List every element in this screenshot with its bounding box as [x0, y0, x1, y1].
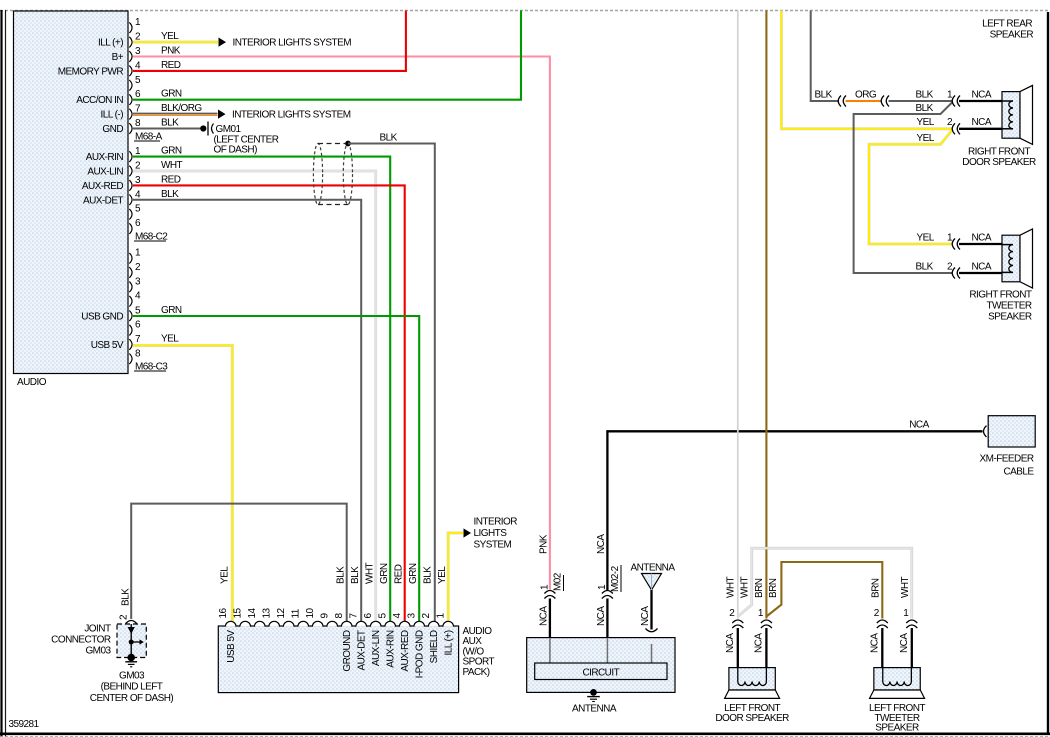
wire NCA door speaker pin 2 — [959, 128, 1002, 130]
GM03 internal wire with arrow — [128, 624, 144, 658]
svg-text:USB 5V: USB 5V — [226, 630, 237, 663]
label WHT (AUX-LIN) — [161, 160, 183, 171]
svg-text:CONNECTOR: CONNECTOR — [51, 635, 111, 646]
svg-text:BRN: BRN — [768, 578, 779, 598]
svg-text:WHT: WHT — [740, 576, 751, 598]
label NCA (tweeter pin2) — [972, 262, 992, 273]
svg-text:AUX-DET: AUX-DET — [83, 195, 123, 206]
wire WHT AUX-LIN — [133, 171, 376, 621]
svg-text:AUX-LIN: AUX-LIN — [371, 630, 382, 666]
svg-text:BLK: BLK — [815, 89, 833, 100]
label BLK (AUX-DET) — [161, 189, 179, 200]
inline connector M02-2 — [597, 565, 621, 599]
audio pin label ILL (-) — [101, 110, 124, 121]
label RED — [161, 60, 181, 71]
wire BLK segment to pin 1 — [889, 100, 953, 102]
svg-text:NCA: NCA — [725, 633, 736, 653]
svg-text:ILL (+): ILL (+) — [444, 630, 455, 655]
svg-text:ORG: ORG — [855, 89, 877, 100]
svg-text:I-POD GND: I-POD GND — [415, 630, 426, 678]
svg-text:YEL: YEL — [917, 233, 935, 244]
svg-text:(BEHIND LEFT: (BEHIND LEFT — [101, 682, 163, 693]
ground point GM01 symbol — [200, 122, 213, 136]
page top border (grey dashed) — [0, 10, 1050, 12]
svg-text:NCA: NCA — [972, 262, 992, 273]
label NCA (tweeter pin1) — [972, 233, 992, 244]
svg-text:GRN: GRN — [408, 563, 419, 584]
svg-text:LIGHTS: LIGHTS — [474, 528, 508, 539]
circuit inner box — [535, 663, 667, 680]
wire BLK to right front door speaker — [811, 11, 839, 102]
svg-text:RED: RED — [161, 60, 181, 71]
audio pin label AUX-LIN — [87, 167, 123, 178]
label YEL — [161, 31, 179, 42]
text RIGHT FRONT TWEETER SPEAKER — [969, 290, 1032, 323]
antenna circuit outer box — [527, 638, 675, 693]
svg-text:NCA: NCA — [972, 233, 992, 244]
label BLK (tweeter) — [916, 262, 934, 273]
inline connector (BLK-ORG) — [838, 96, 846, 107]
svg-text:M02: M02 — [553, 572, 564, 591]
svg-text:NCA: NCA — [596, 606, 607, 626]
audio pin label ACC/ON IN — [76, 95, 123, 106]
svg-text:YEL: YEL — [161, 31, 179, 42]
svg-text:ILL (-): ILL (-) — [101, 110, 124, 121]
svg-text:INTERIOR LIGHTS SYSTEM: INTERIOR LIGHTS SYSTEM — [232, 110, 351, 121]
wire RED AUX-RED — [133, 185, 405, 621]
audio connector M68-A pins 1-8 — [129, 17, 141, 134]
svg-text:INTERIOR: INTERIOR — [474, 517, 518, 528]
svg-text:INTERIOR LIGHTS SYSTEM: INTERIOR LIGHTS SYSTEM — [233, 38, 352, 49]
wire GRN USB GND — [133, 316, 419, 621]
svg-text:NCA: NCA — [899, 633, 910, 653]
label NCA (tweeter lead 1) — [899, 633, 910, 653]
text INTERIOR LIGHTS SYSTEM (second) — [232, 110, 351, 121]
svg-text:AUX-RED: AUX-RED — [82, 181, 123, 192]
svg-text:USB GND: USB GND — [81, 311, 123, 322]
svg-text:AUX-RED: AUX-RED — [400, 630, 411, 671]
svg-text:CIRCUIT: CIRCUIT — [582, 668, 619, 679]
tweeter pin 1 connector — [947, 233, 960, 250]
svg-text:GRN: GRN — [379, 563, 390, 584]
svg-text:DOOR SPEAKER: DOOR SPEAKER — [962, 157, 1036, 168]
label ORG — [855, 89, 877, 100]
tweeter pin 2 connector — [947, 262, 960, 279]
svg-text:YEL: YEL — [161, 334, 179, 345]
svg-text:BLK: BLK — [121, 588, 132, 606]
wire NCA speaker lead at x=766.4 — [765, 628, 767, 669]
XM-FEEDER CABLE box — [988, 416, 1035, 447]
svg-text:BLK: BLK — [916, 89, 934, 100]
page bottom border — [0, 734, 1050, 737]
label NCA below M02 — [538, 606, 549, 626]
audio pin label AUX-RIN — [86, 152, 124, 163]
wire NCA speaker lead at x=882.3 — [881, 628, 883, 669]
label NCA (door lead 1) — [753, 633, 764, 653]
audio aux connector box — [218, 626, 458, 693]
wire RED MEMORY PWR (to top) — [133, 11, 406, 71]
svg-text:TWEETER: TWEETER — [986, 301, 1031, 312]
label BLK/ORG — [161, 103, 202, 114]
shield drain junction dot — [345, 141, 351, 147]
label NCA (door lead 2) — [725, 633, 736, 653]
svg-text:ANTENNA: ANTENNA — [572, 703, 617, 714]
svg-text:359281: 359281 — [9, 719, 40, 730]
svg-text:GRN: GRN — [161, 146, 182, 157]
svg-text:WHT: WHT — [365, 562, 376, 584]
connector name M68-A — [134, 132, 163, 143]
svg-text:SYSTEM: SYSTEM — [474, 540, 512, 551]
inline connector (ORG-BLK) — [881, 96, 889, 107]
wire YEL USB 5V — [133, 346, 232, 622]
wire NCA antenna lead — [650, 590, 652, 630]
label WHT (tweeter pin1) — [900, 576, 911, 598]
svg-text:GM01: GM01 — [216, 124, 242, 135]
wire WHT branch (door to tweeter pin1) — [738, 548, 912, 618]
text AUDIO AUX (W/O SPORT PACK) — [463, 626, 495, 678]
svg-text:AUX-RIN: AUX-RIN — [386, 630, 397, 668]
label WHT (door pin2 b) — [740, 576, 751, 598]
svg-text:YEL: YEL — [437, 566, 448, 584]
wire NCA door speaker pin 1 — [959, 100, 1002, 102]
svg-text:NCA: NCA — [640, 606, 651, 626]
arrow to interior lights system (aux) — [464, 528, 472, 537]
wire GRN ACC/ON IN (to top) — [133, 11, 521, 100]
audio pin label AUX-RED — [82, 181, 123, 192]
label BLK (GM03 wire, rotated) — [121, 588, 132, 606]
label WHT (door pin2 a) — [725, 576, 736, 598]
svg-text:GM03: GM03 — [119, 671, 145, 682]
inline connector M02 (PNK) — [539, 572, 563, 598]
text INTERIOR LIGHTS SYSTEM (three lines) — [474, 517, 518, 551]
wire YEL to right front door speaker — [781, 11, 952, 129]
label YEL (door spk) — [917, 117, 935, 128]
label BLK (second segment) — [916, 89, 934, 100]
svg-text:WHT: WHT — [900, 576, 911, 598]
svg-text:NCA: NCA — [972, 89, 992, 100]
wire BLK GND to GM01 — [133, 128, 201, 130]
svg-text:SPEAKER: SPEAKER — [988, 312, 1032, 323]
audio pin label USB 5V — [91, 340, 124, 351]
svg-text:RED: RED — [161, 174, 181, 185]
text GM03 (BEHIND LEFT CENTER OF DASH) — [90, 671, 174, 704]
svg-text:RED: RED — [394, 564, 405, 584]
svg-text:NCA: NCA — [869, 633, 880, 653]
audio pin label GND — [102, 124, 123, 135]
page left border — [2, 10, 6, 737]
door speaker pin 2 connector — [947, 117, 960, 134]
svg-text:NCA: NCA — [753, 633, 764, 653]
svg-text:GND: GND — [102, 124, 123, 135]
svg-text:14: 14 — [247, 607, 258, 618]
svg-text:OF DASH): OF DASH) — [214, 145, 258, 156]
arrow to interior lights system (ILL-) — [218, 110, 226, 119]
XM feeder connector arc — [984, 426, 987, 437]
svg-text:11: 11 — [290, 608, 301, 618]
svg-text:SHIELD: SHIELD — [429, 630, 440, 663]
door speaker pin 1 connector — [947, 89, 960, 106]
svg-text:BLK: BLK — [916, 103, 934, 114]
svg-text:LEFT REAR: LEFT REAR — [982, 19, 1032, 30]
text LEFT FRONT DOOR SPEAKER — [715, 703, 789, 724]
text RIGHT FRONT DOOR SPEAKER — [962, 146, 1036, 168]
wire BLK branch to tweeter — [854, 103, 953, 274]
wire NCA speaker lead at x=911.8 — [911, 628, 913, 669]
svg-text:MEMORY PWR: MEMORY PWR — [58, 66, 124, 77]
wire WHT (left rear, long vertical) — [737, 11, 739, 619]
svg-text:M02-2: M02-2 — [610, 565, 621, 592]
wire NCA from M02-2 to circuit — [606, 599, 608, 639]
arrow to interior lights system (ILL+) — [219, 38, 227, 47]
page right border — [1047, 12, 1049, 735]
wire BLK/ORG ILL(-) — [133, 114, 218, 116]
speaker pin 1 connector at x=766.4 — [758, 608, 772, 628]
svg-text:NCA: NCA — [538, 606, 549, 626]
svg-text:BRN: BRN — [754, 578, 765, 598]
svg-text:AUX-DET: AUX-DET — [357, 630, 368, 670]
svg-text:10: 10 — [305, 607, 316, 618]
svg-text:GM03: GM03 — [85, 646, 111, 657]
wire YEL ILL(+) from audio aux pin 1 — [448, 533, 463, 621]
text JOINT CONNECTOR GM03 — [51, 624, 111, 657]
svg-text:B+: B+ — [112, 52, 124, 63]
svg-text:NCA: NCA — [596, 534, 607, 554]
label RED (AUX-RED) — [161, 174, 181, 185]
speaker pin 2 connector at x=737.8 — [729, 608, 743, 628]
label NCA below M02-2 — [596, 606, 607, 626]
label BRN (tweeter pin2) — [870, 578, 881, 598]
wire BRN (left rear, long vertical) — [765, 11, 767, 619]
label GRN (USB GND) — [161, 305, 182, 316]
audio pin label ILL (+) — [98, 38, 123, 49]
svg-text:WHT: WHT — [161, 160, 183, 171]
audio pin label MEMORY PWR — [58, 66, 124, 77]
label GRN (AUX-RIN) — [161, 146, 182, 157]
svg-text:BLK: BLK — [350, 566, 361, 584]
text GM01 (LEFT CENTER OF DASH) — [214, 124, 279, 156]
pin number 2 (GM03) — [119, 614, 130, 620]
svg-text:BLK: BLK — [916, 262, 934, 273]
audio connector M68-C3 pins 1-8 — [129, 248, 141, 364]
label BRN (door pin1 a) — [754, 578, 765, 598]
svg-text:CABLE: CABLE — [1003, 467, 1034, 478]
wire NCA speaker lead at x=737.8 — [737, 628, 739, 669]
text LEFT REAR SPEAKER — [982, 19, 1033, 41]
label GRN — [161, 89, 182, 100]
wire YEL ILL(+) to interior lights — [133, 41, 218, 44]
label PNK — [161, 46, 181, 57]
shield (dashed) around AUX wires — [313, 144, 352, 205]
svg-text:XM-FEEDER: XM-FEEDER — [980, 454, 1034, 465]
antenna mast symbol — [631, 563, 676, 591]
svg-text:USB 5V: USB 5V — [91, 340, 124, 351]
wire BLK shield drain — [348, 144, 435, 622]
svg-text:GROUND: GROUND — [342, 630, 353, 671]
svg-text:BLK: BLK — [161, 189, 179, 200]
text ANTENNA (below circuit) — [572, 703, 617, 714]
svg-text:15: 15 — [232, 607, 243, 618]
audio pin label AUX-DET — [83, 195, 123, 206]
svg-text:NCA: NCA — [909, 420, 929, 431]
label PNK (rotated) — [538, 534, 549, 554]
wire GRN AUX-RIN — [133, 157, 390, 621]
svg-text:BLK/ORG: BLK/ORG — [161, 103, 202, 114]
svg-text:RIGHT FRONT: RIGHT FRONT — [968, 146, 1031, 157]
label NCA (door pin2) — [972, 117, 992, 128]
svg-text:ILL (+): ILL (+) — [98, 38, 123, 49]
audio unit box (AUDIO) — [14, 11, 129, 374]
svg-text:PNK: PNK — [161, 46, 181, 57]
audio pin label B+ — [112, 52, 124, 63]
svg-text:AUX-LIN: AUX-LIN — [87, 167, 123, 178]
svg-text:AUX-RIN: AUX-RIN — [86, 152, 124, 163]
svg-text:13: 13 — [261, 607, 272, 618]
svg-text:YEL: YEL — [220, 566, 231, 584]
GM03 ground terminal dot — [127, 654, 135, 662]
svg-text:SPEAKER: SPEAKER — [875, 723, 919, 734]
svg-text:ANTENNA: ANTENNA — [631, 563, 676, 574]
svg-text:GRN: GRN — [161, 89, 182, 100]
label BLK (branch) — [916, 103, 934, 114]
svg-text:BLK: BLK — [380, 133, 398, 144]
svg-text:NCA: NCA — [972, 117, 992, 128]
svg-text:SPEAKER: SPEAKER — [990, 29, 1034, 40]
svg-text:BLK: BLK — [336, 566, 347, 584]
label YEL (branch) — [917, 133, 935, 144]
label NCA (door pin1) — [972, 89, 992, 100]
text LEFT FRONT TWEETER SPEAKER — [869, 703, 925, 733]
circuit ground symbol — [587, 697, 600, 702]
label NCA (tweeter lead 2) — [869, 633, 880, 653]
svg-text:GRN: GRN — [161, 305, 182, 316]
speaker pin 1 connector at x=911.8 — [903, 608, 917, 628]
circuit ground dot — [590, 689, 597, 696]
wire NCA XM feeder — [607, 431, 982, 591]
connector name M68-C3 — [134, 362, 168, 373]
label AUDIO — [17, 377, 47, 388]
wire ORG segment — [846, 100, 882, 102]
svg-text:PACK): PACK) — [463, 667, 490, 678]
wire NCA from M02 to circuit — [549, 599, 551, 639]
wires inside circuit box — [550, 639, 652, 664]
label NCA (rotated, above M02-2) — [596, 534, 607, 554]
svg-text:YEL: YEL — [917, 133, 935, 144]
svg-text:RIGHT FRONT: RIGHT FRONT — [969, 290, 1032, 301]
right front door speaker symbol — [1002, 85, 1033, 144]
label BLK (shield drain) — [380, 133, 398, 144]
wire BLK ground to GM03 — [131, 504, 347, 621]
GM03 connector entry arc — [126, 621, 137, 624]
svg-text:PNK: PNK — [538, 534, 549, 554]
svg-text:BLK: BLK — [161, 118, 179, 129]
audio pin label USB GND — [81, 311, 123, 322]
audio aux pin function labels — [226, 630, 455, 679]
diagram id 359281 — [9, 719, 40, 730]
left front door speaker symbol — [725, 668, 780, 699]
svg-text:BRN: BRN — [870, 578, 881, 598]
label YEL (USB 5V) — [161, 334, 179, 345]
wire BLK AUX-DET — [133, 200, 361, 621]
text INTERIOR LIGHTS SYSTEM (top) — [233, 38, 352, 49]
label BRN (door pin1 b) — [768, 578, 779, 598]
right front tweeter speaker symbol — [1002, 229, 1033, 288]
antenna lead connector arcs — [646, 629, 658, 644]
svg-text:BLK: BLK — [423, 566, 434, 584]
label NCA (XM feeder) — [909, 420, 929, 431]
wire NCA tweeter pin 2 — [959, 272, 1002, 274]
left front tweeter speaker symbol — [870, 668, 925, 699]
svg-text:DOOR SPEAKER: DOOR SPEAKER — [715, 713, 789, 724]
svg-text:ACC/ON IN: ACC/ON IN — [76, 95, 123, 106]
joint connector GM03 dashed box — [117, 624, 146, 658]
wire YEL branch to tweeter — [869, 130, 953, 244]
svg-text:YEL: YEL — [917, 117, 935, 128]
wire NCA tweeter pin 1 — [959, 243, 1002, 245]
label BLK (GND) — [161, 118, 179, 129]
svg-text:16: 16 — [218, 607, 229, 618]
connector name M68-C2 — [134, 232, 168, 243]
speaker pin 2 connector at x=882.3 — [874, 608, 888, 628]
svg-text:WHT: WHT — [725, 576, 736, 598]
wire PNK B+ to M02 — [133, 57, 550, 590]
GM03 ground symbol — [125, 662, 137, 667]
svg-text:12: 12 — [276, 607, 287, 618]
svg-text:CENTER OF DASH): CENTER OF DASH) — [90, 693, 174, 704]
text XM-FEEDER CABLE — [980, 454, 1035, 478]
label YEL (tweeter) — [917, 233, 935, 244]
wire BRN branch (door to tweeter pin2) — [766, 562, 882, 619]
audio aux wire colour labels (rotated) — [220, 562, 449, 584]
svg-text:AUDIO: AUDIO — [17, 377, 47, 388]
label NCA (antenna) — [640, 606, 651, 626]
label BLK (door spk) — [815, 89, 833, 100]
audio connector M68-C2 pins 1-6 — [129, 146, 141, 234]
svg-text:JOINT: JOINT — [84, 624, 111, 635]
audio aux pin caps and numbers 16-1 — [218, 607, 454, 626]
